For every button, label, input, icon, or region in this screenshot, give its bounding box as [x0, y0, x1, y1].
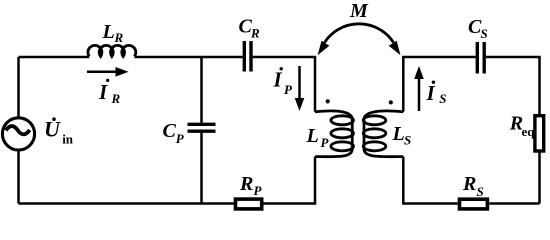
dot secondary: [389, 100, 393, 104]
wire C_R to primary corner: [253, 57, 315, 112]
wire top middle: [135, 56, 243, 59]
inductor L_R: [88, 45, 136, 56]
branch C_P vertical bottom: [200, 133, 203, 204]
arrowhead M right: [389, 41, 401, 55]
svg-text:R: R: [239, 173, 253, 195]
wire bottom left: [19, 202, 235, 205]
primary coil L_P: [315, 111, 352, 157]
svg-text:S: S: [404, 133, 411, 148]
current arrow I_P: [298, 66, 301, 100]
capacitor C_P: [188, 124, 216, 131]
capacitor C_S: [477, 42, 484, 74]
svg-text:S: S: [481, 26, 488, 41]
resistor R_eq: [535, 116, 544, 151]
svg-text:P: P: [254, 183, 263, 198]
svg-text:I: I: [273, 67, 283, 91]
wire left vertical bottom: [17, 151, 20, 204]
mutual arc M: [325, 24, 394, 43]
source sine: [6, 126, 30, 134]
svg-text:L: L: [392, 123, 405, 145]
current arrow I_R: [87, 71, 118, 74]
wire right vertical bottom: [538, 153, 541, 204]
svg-text:I: I: [98, 80, 108, 104]
svg-text:M: M: [349, 0, 369, 22]
svg-text:P: P: [176, 131, 185, 146]
svg-text:C: C: [163, 120, 177, 142]
wire R_S to secondary: [403, 157, 458, 204]
svg-text:L: L: [306, 125, 319, 147]
resistor R_S: [460, 199, 488, 209]
svg-text:in: in: [62, 132, 74, 147]
resistor R_P: [236, 199, 262, 209]
wire top left: [19, 56, 90, 59]
wire left vertical top: [17, 57, 20, 118]
svg-text:R: R: [111, 91, 121, 106]
secondary top corner: [403, 57, 475, 112]
dot primary: [326, 99, 330, 103]
svg-text:L: L: [102, 21, 115, 43]
wire C_S to right corner: [486, 57, 540, 114]
svg-text:R: R: [462, 173, 476, 195]
svg-text:S: S: [477, 184, 484, 199]
branch C_P vertical top: [200, 57, 203, 123]
svg-text:P: P: [284, 82, 293, 97]
current arrow I_S: [418, 77, 421, 111]
svg-text:I: I: [426, 81, 436, 105]
capacitor C_R: [244, 41, 251, 72]
svg-text:R: R: [114, 30, 124, 45]
svg-text:R: R: [250, 25, 260, 40]
wire R_P to primary: [263, 157, 315, 204]
svg-text:eq: eq: [522, 124, 536, 139]
wire bottom right: [489, 202, 539, 205]
arrowhead M left: [318, 41, 330, 55]
secondary coil L_S: [364, 111, 403, 157]
source U_in circle: [2, 118, 34, 150]
svg-text:S: S: [439, 91, 446, 106]
svg-text:P: P: [321, 135, 330, 150]
